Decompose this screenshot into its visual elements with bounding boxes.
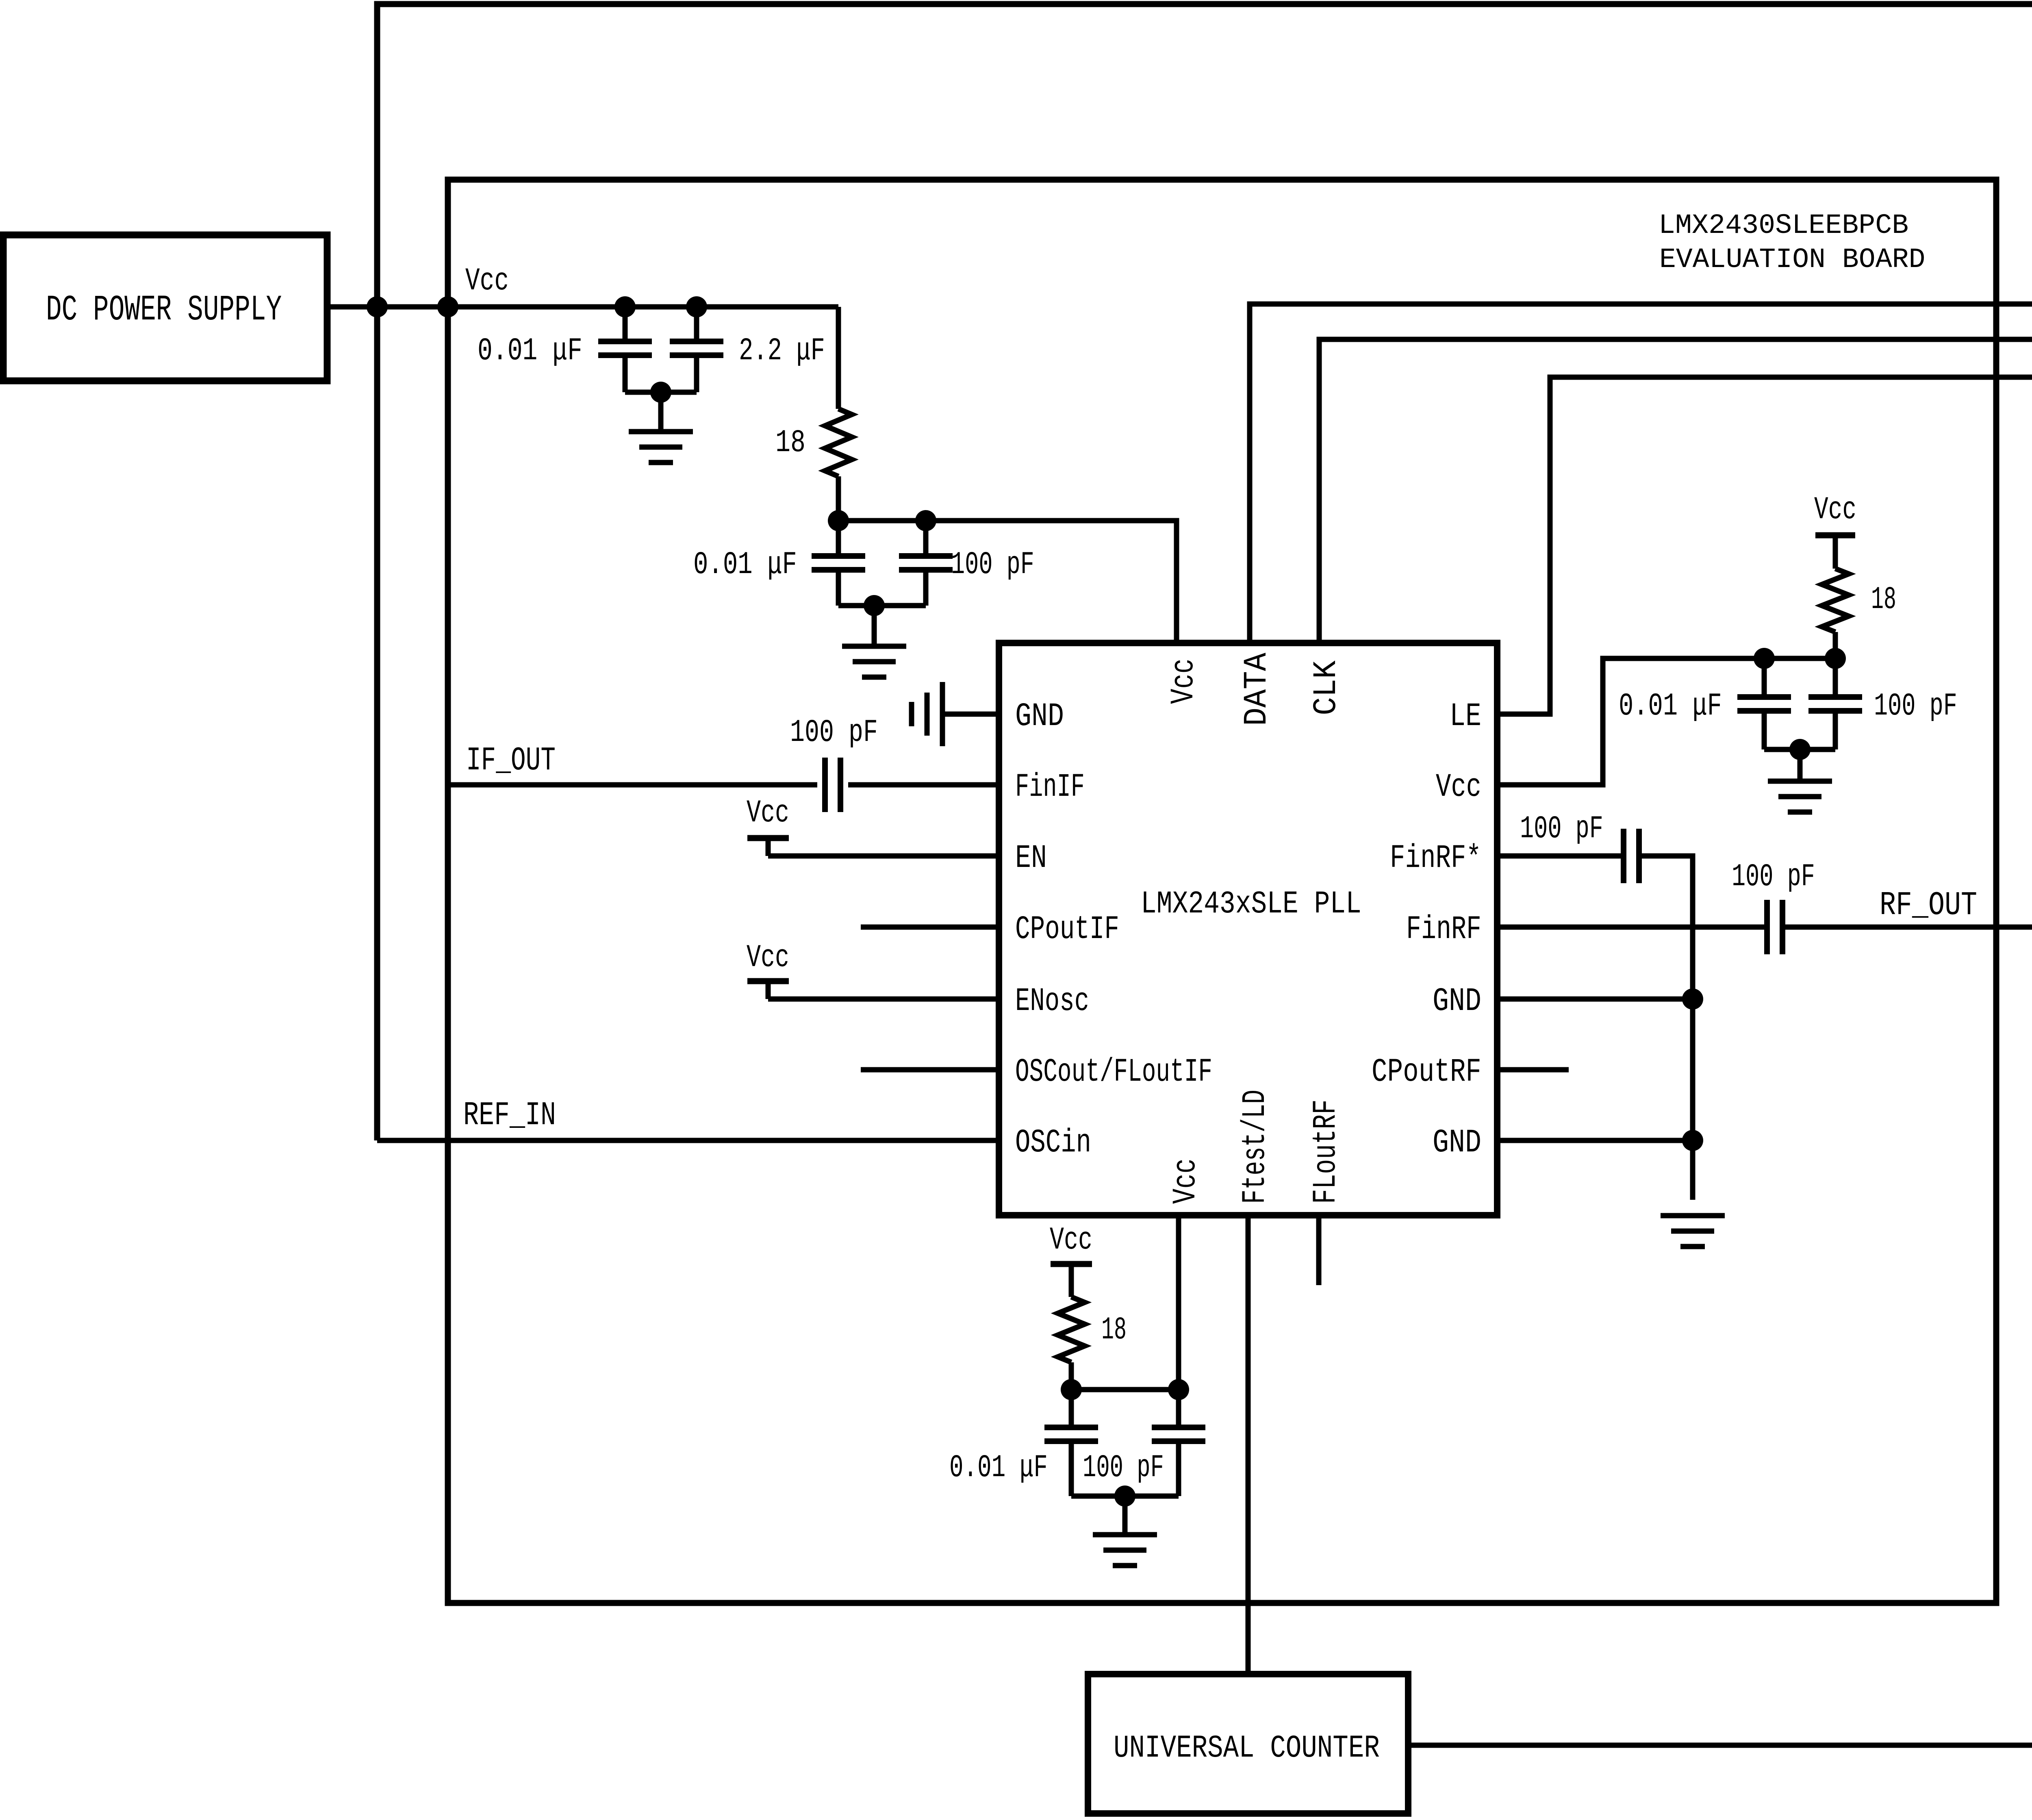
- svg-text:FLoutRF: FLoutRF: [1308, 1099, 1345, 1204]
- svg-text:18: 18: [1871, 582, 1896, 617]
- pin label GND (right 2): [1433, 1125, 1481, 1162]
- svg-text:GND: GND: [1433, 983, 1481, 1021]
- power Vcc tap ENosc label: [747, 940, 789, 976]
- capacitor C10 label 0.01uF: [949, 1450, 1048, 1486]
- capacitor C2 2.2uF stub top: [694, 307, 699, 341]
- wire stub to ground 1: [658, 392, 664, 432]
- net label IF_OUT: [466, 742, 556, 780]
- wire bottom net rail: [1071, 1387, 1179, 1392]
- svg-text:OSCin: OSCin: [1015, 1124, 1091, 1162]
- net label Vcc: [465, 263, 509, 299]
- capacitor C1 0.01uF stub top: [623, 307, 628, 341]
- svg-text:Vcc: Vcc: [747, 795, 789, 831]
- svg-text:Vcc: Vcc: [747, 940, 789, 976]
- wire R1 to rail: [836, 476, 841, 521]
- power Vcc tap for ENosc: [747, 981, 789, 999]
- capacitor C1 0.01uF plates: [598, 341, 652, 355]
- svg-text:IF_OUT: IF_OUT: [466, 742, 556, 780]
- svg-text:GND: GND: [1015, 698, 1064, 736]
- wire decoupling rail to chip Vcc pin: [838, 521, 1177, 643]
- text DC POWER SUPPLY: [46, 290, 282, 330]
- svg-text:100 pF: 100 pF: [1520, 811, 1603, 847]
- resistor R1 label 18: [775, 426, 805, 461]
- ground symbol 1: [629, 432, 693, 463]
- wire FinRF* cap to gnd column: [1639, 856, 1693, 1200]
- capacitor C11 100pF: [1152, 1390, 1205, 1496]
- capacitor C3 0.01uF: [812, 521, 865, 606]
- node junction dot GND1: [1682, 988, 1703, 1010]
- wire R3 to rail: [1069, 1362, 1074, 1390]
- pin label DATA (rotated): [1239, 653, 1276, 726]
- resistor R2 label 18: [1871, 582, 1896, 617]
- wire R2 to rail: [1833, 632, 1838, 658]
- capacitor C2 label 2.2uF: [739, 333, 825, 369]
- wire Ftest/LD to counter: [1246, 1215, 1251, 1674]
- svg-text:0.01 μF: 0.01 μF: [478, 334, 582, 369]
- capacitor C10 0.01uF: [1044, 1390, 1098, 1496]
- svg-text:UNIVERSAL COUNTER: UNIVERSAL COUNTER: [1114, 1731, 1380, 1766]
- capacitor C6 label 100pF: [1520, 811, 1603, 847]
- svg-text:0.01 μF: 0.01 μF: [1619, 688, 1722, 724]
- node junction dot C10/C11 gnd: [1114, 1486, 1135, 1507]
- wire FinRF* to cap: [1497, 854, 1624, 859]
- node junction dot C8/C9 gnd: [1789, 739, 1811, 760]
- resistor R3 18: [1058, 1297, 1085, 1362]
- power Vcc tap for EN: [747, 838, 789, 856]
- svg-text:EVALUATION BOARD: EVALUATION BOARD: [1659, 244, 1925, 276]
- wire C8/C9 bottom rail: [1764, 747, 1835, 752]
- svg-text:18: 18: [1101, 1312, 1127, 1348]
- wire CLK line: [1319, 339, 2032, 643]
- svg-text:Vcc: Vcc: [1814, 492, 1856, 528]
- text EVALUATION BOARD: [1659, 244, 1925, 276]
- power Vcc bar (bottom net): [1051, 1261, 1092, 1267]
- wire Vcc tap to EN: [768, 854, 999, 859]
- text UNIVERSAL COUNTER: [1114, 1731, 1380, 1766]
- svg-text:GND: GND: [1433, 1125, 1481, 1162]
- node junction dot C10: [1061, 1379, 1082, 1400]
- pin label Ftest/LD (rotated): [1237, 1090, 1274, 1204]
- pin label Vcc (top, rotated): [1165, 658, 1203, 704]
- wire 10MHz REF OUT to counter: [1408, 1283, 2032, 1745]
- wire REF_IN to OSCin: [377, 1138, 999, 1143]
- svg-text:ENosc: ENosc: [1015, 983, 1089, 1020]
- node junction dot Vcc/rail: [367, 296, 388, 317]
- node junction dot C9: [1825, 648, 1846, 669]
- capacitor C4 100pF: [899, 521, 953, 606]
- wire Vcc right pin to decoupling: [1497, 658, 1835, 785]
- svg-text:FinRF: FinRF: [1406, 911, 1481, 948]
- net label REF_IN: [463, 1097, 556, 1135]
- power Vcc label (bottom net): [1050, 1223, 1092, 1258]
- wire stub to ground 4: [1798, 749, 1803, 781]
- svg-text:100 pF: 100 pF: [1874, 688, 1957, 724]
- pin label CPoutIF: [1015, 912, 1119, 948]
- capacitor C3 label 0.01uF: [693, 547, 797, 582]
- power Vcc bar (right net): [1815, 532, 1855, 539]
- svg-text:FinIF: FinIF: [1015, 769, 1085, 806]
- capacitor C9 label 100pF: [1874, 688, 1957, 724]
- wire Vcc to R1: [836, 307, 841, 409]
- wire CPoutRF stub: [1497, 1067, 1569, 1073]
- svg-text:LE: LE: [1450, 698, 1481, 735]
- wire FLoutRF stub: [1316, 1215, 1322, 1285]
- block DC POWER SUPPLY box: [3, 235, 327, 381]
- wire C1/C2 bottom rail: [625, 355, 697, 392]
- text LMX2430SLEEBPCB: [1659, 210, 1908, 241]
- node junction dot C1/C2 gnd: [650, 382, 671, 403]
- svg-text:Vcc: Vcc: [1050, 1223, 1092, 1258]
- svg-text:Vcc: Vcc: [465, 263, 509, 299]
- node junction dot C1: [614, 296, 636, 317]
- svg-text:100 pF: 100 pF: [790, 715, 878, 750]
- pin label GND: [1015, 698, 1064, 736]
- svg-text:FinRF*: FinRF*: [1390, 840, 1481, 877]
- wire DATA line: [1250, 304, 2032, 643]
- wire Vcc bar to R2: [1833, 535, 1838, 569]
- node junction dot C3/C4 gnd: [864, 595, 885, 616]
- svg-text:18: 18: [775, 426, 805, 461]
- wire GND pin 1 (right): [1497, 997, 1693, 1002]
- wire Vcc loop rail (DC supply - top - right side - buffer Vcc): [377, 4, 2032, 1140]
- wire Vcc bar to R3: [1069, 1264, 1074, 1297]
- capacitor C7 100pF (RF_OUT): [1767, 900, 1782, 954]
- wire stub to ground 5: [1122, 1496, 1128, 1535]
- wire stub to ground 2: [872, 606, 877, 646]
- svg-text:0.01 μF: 0.01 μF: [693, 547, 797, 582]
- svg-text:DC POWER SUPPLY: DC POWER SUPPLY: [46, 290, 282, 330]
- node junction dot Vcc/board edge: [437, 296, 458, 317]
- pin label Vcc (bottom, rotated): [1167, 1158, 1205, 1204]
- text LMX243xSLE PLL: [1141, 887, 1361, 922]
- node junction dot C4: [915, 510, 936, 531]
- node junction dot C11: [1168, 1379, 1189, 1400]
- pin label FLoutRF (rotated): [1308, 1099, 1345, 1204]
- ground symbol 3 (gnd column): [1661, 1216, 1725, 1247]
- pin GND wire (chip left): [943, 712, 999, 717]
- svg-text:Vcc: Vcc: [1165, 658, 1203, 704]
- svg-text:Ftest/LD: Ftest/LD: [1237, 1090, 1274, 1204]
- node junction dot C8: [1754, 648, 1775, 669]
- pin label OSCin: [1015, 1124, 1091, 1162]
- pin label FinRF*: [1390, 840, 1481, 877]
- capacitor C9 100pF: [1808, 658, 1862, 749]
- resistor R2 18: [1822, 569, 1849, 632]
- capacitor C1 label 0.01uF: [478, 334, 582, 369]
- svg-text:Vcc: Vcc: [1167, 1158, 1205, 1204]
- svg-text:100 pF: 100 pF: [951, 547, 1034, 583]
- pin label CLK (rotated): [1308, 660, 1345, 715]
- block UNIVERSAL COUNTER box: [1088, 1674, 1408, 1813]
- pin label GND (right 1): [1433, 983, 1481, 1021]
- svg-text:Vcc: Vcc: [1436, 769, 1481, 806]
- wire Vcc from DC POWER SUPPLY: [327, 304, 838, 310]
- svg-text:CPoutIF: CPoutIF: [1015, 912, 1119, 948]
- capacitor C8 label 0.01uF: [1619, 688, 1722, 724]
- pin label OSCout/FLoutIF: [1015, 1054, 1212, 1091]
- pin label ENosc: [1015, 983, 1089, 1020]
- capacitor C8 0.01uF: [1737, 658, 1791, 749]
- node junction dot GND2: [1682, 1130, 1703, 1151]
- svg-text:0.01 μF: 0.01 μF: [949, 1450, 1048, 1486]
- svg-text:REF_IN: REF_IN: [463, 1097, 556, 1135]
- block LMX2430SLEEBPCB evaluation board outline: [448, 180, 1996, 1603]
- IC U1 LMX243xSLE PLL body: [999, 643, 1497, 1215]
- svg-text:100 pF: 100 pF: [1083, 1451, 1164, 1486]
- ground symbol 4: [1768, 781, 1832, 812]
- capacitor C6 100pF (FinRF*): [1624, 829, 1639, 883]
- ground symbol 5: [1093, 1535, 1157, 1566]
- power Vcc tap EN label: [747, 795, 789, 831]
- node junction dot C3: [828, 510, 849, 531]
- capacitor C7 label 100pF: [1732, 859, 1815, 895]
- resistor R3 label 18: [1101, 1312, 1127, 1348]
- capacitor C2 2.2uF plates: [670, 341, 723, 355]
- node junction dot C2: [686, 296, 707, 317]
- ground symbol 2: [842, 646, 906, 677]
- capacitor C5 label 100pF: [790, 715, 878, 750]
- svg-text:LMX243xSLE PLL: LMX243xSLE PLL: [1141, 887, 1361, 922]
- svg-text:CPoutRF: CPoutRF: [1372, 1053, 1481, 1091]
- svg-text:100 pF: 100 pF: [1732, 859, 1815, 895]
- wire IF_OUT to FinIF: [448, 782, 999, 788]
- pin label EN: [1015, 840, 1047, 877]
- svg-text:EN: EN: [1015, 840, 1047, 877]
- svg-text:LMX2430SLEEBPCB: LMX2430SLEEBPCB: [1659, 210, 1908, 241]
- wire LE line: [1497, 377, 2032, 714]
- svg-text:2.2 μF: 2.2 μF: [739, 333, 825, 369]
- svg-text:CLK: CLK: [1308, 660, 1345, 715]
- capacitor C11 label 100pF: [1083, 1451, 1164, 1486]
- wire OSCout/FLoutIF stub: [861, 1067, 999, 1073]
- capacitor C5 100pF (FinIF): [825, 758, 840, 812]
- pin label Vcc (right): [1436, 769, 1481, 806]
- capacitor C4 label 100pF: [951, 547, 1034, 583]
- svg-text:OSCout/FLoutIF: OSCout/FLoutIF: [1015, 1054, 1212, 1091]
- ground symbol chip GND (left-pointing): [912, 682, 942, 746]
- power Vcc label (right net): [1814, 492, 1856, 528]
- wire Vcc tap to ENosc: [768, 997, 999, 1002]
- svg-text:RF_OUT: RF_OUT: [1880, 887, 1977, 924]
- net label RF_OUT: [1880, 887, 1977, 924]
- wire CPoutIF stub: [861, 925, 999, 930]
- wire FinRF to RF_OUT: [1497, 925, 2032, 930]
- pin label CPoutRF: [1372, 1053, 1481, 1091]
- wire Vcc bottom pin: [1176, 1215, 1181, 1390]
- wire GND pin 2 (right): [1497, 1138, 1693, 1143]
- wire C10/C11 bottom rail: [1071, 1494, 1179, 1499]
- wire C3/C4 bottom rail: [838, 603, 926, 608]
- pin label FinRF: [1406, 911, 1481, 948]
- resistor R1 18: [825, 409, 852, 476]
- svg-text:DATA: DATA: [1239, 653, 1276, 726]
- pin label LE: [1450, 698, 1481, 735]
- pin label FinIF: [1015, 769, 1085, 806]
